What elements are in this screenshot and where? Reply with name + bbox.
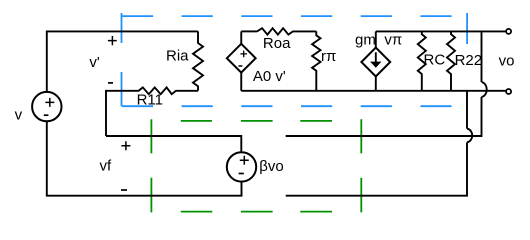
svg-text:βvo: βvo	[259, 158, 283, 175]
feedback dashed box (green) top edge	[181, 120, 332, 122]
svg-text:v: v	[15, 107, 23, 124]
amplifier dashed box (blue) top edge	[122, 15, 452, 17]
svg-text:Ria: Ria	[166, 47, 189, 64]
feedback wire from v' minus node to beta-vo source top	[106, 136, 241, 152]
feedback dashed box (green) left edge	[150, 119, 152, 212]
source v minus sign	[44, 114, 49, 116]
node vf plus mark	[121, 141, 130, 150]
svg-text:Roa: Roa	[263, 35, 291, 52]
feedback dashed box (green) bottom edge	[181, 211, 332, 213]
dependent source gm v-pi diamond	[361, 48, 390, 77]
amplifier dashed box (blue) bottom edge	[122, 105, 452, 107]
svg-text:v': v'	[89, 54, 100, 71]
svg-text:rπ: rπ	[321, 48, 336, 65]
resistor R22	[447, 31, 455, 90]
wire from source v top to Ria top	[47, 31, 198, 91]
resistor Ria	[193, 31, 203, 90]
node v' minus mark	[108, 82, 113, 84]
gm source arrow shaft	[375, 52, 377, 62]
dependent source A0 v' bottom stub	[240, 72, 242, 91]
svg-text:gm: gm	[355, 31, 376, 48]
amplifier bottom wire to output terminal	[241, 90, 506, 92]
svg-text:A0 v': A0 v'	[253, 68, 286, 85]
svg-text:R11: R11	[137, 92, 163, 109]
wire from bottom wire down with hop over mid wire, to lowest horizontal wire	[286, 91, 473, 196]
output terminal lower	[506, 89, 511, 94]
beta-vo plus sign	[240, 156, 249, 165]
wire A0 top to Roa to r-pi top	[241, 30, 257, 32]
resistor R11 with wire from v' minus node	[106, 87, 198, 136]
wire beta-vo bottom to source v bottom	[47, 122, 242, 196]
gm source arrow head	[370, 62, 381, 68]
amplifier dashed box (blue) right edge	[466, 13, 468, 44]
dependent source A0 v' top stub	[240, 31, 242, 44]
dependent source gm v-pi bottom stub	[375, 76, 377, 91]
beta-vo minus sign	[239, 173, 244, 175]
svg-text:vf: vf	[100, 158, 113, 175]
amplifier top-right wire to output terminal	[376, 30, 506, 32]
A0 diamond plus sign	[240, 51, 247, 58]
wire from top wire down with hop over bottom wire, to lower horizontal wire	[286, 31, 487, 136]
resistor r-pi	[312, 31, 320, 90]
svg-text:R22: R22	[455, 52, 483, 69]
amplifier dashed box (blue) left edge	[121, 13, 123, 106]
svg-text:RC: RC	[424, 52, 446, 69]
feedback dashed box (green) right edge	[360, 119, 362, 212]
svg-text:vo: vo	[499, 53, 515, 70]
svg-text:vπ: vπ	[384, 31, 402, 48]
output terminal upper	[506, 29, 511, 34]
dependent source gm v-pi top stub	[375, 31, 377, 48]
resistor RC	[418, 31, 426, 90]
A0 diamond minus sign	[238, 65, 242, 67]
independent source v circle	[32, 92, 61, 121]
source beta-vo circle	[227, 152, 256, 181]
node v' plus mark	[108, 36, 117, 45]
node vf minus mark	[121, 189, 127, 191]
resistor Roa	[257, 28, 316, 34]
source v plus sign	[45, 98, 54, 107]
dependent source A0 v' diamond	[227, 44, 256, 73]
